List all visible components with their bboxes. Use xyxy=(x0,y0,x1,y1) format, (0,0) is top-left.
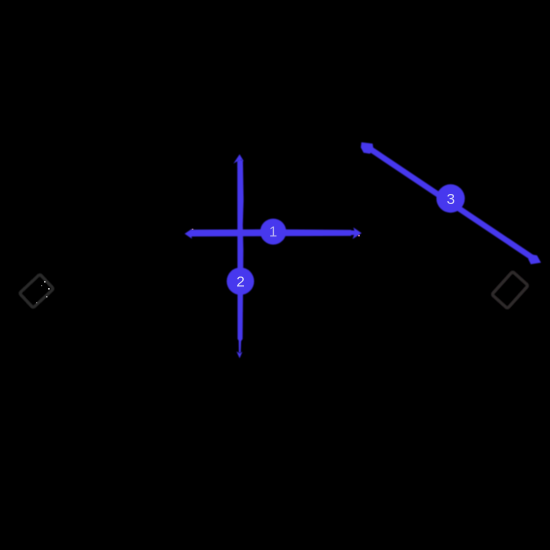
right object (rotated dark rectangle outline) xyxy=(492,271,528,308)
vertical arrow bottom small head xyxy=(237,351,243,358)
diagonal arrow shaft xyxy=(367,147,536,260)
vertical arrow top head xyxy=(233,154,243,166)
marker circle 1 xyxy=(260,219,286,245)
pink artifact dot right xyxy=(358,235,360,237)
svg-text:1: 1 xyxy=(269,225,277,241)
marker circle 2 xyxy=(227,268,254,295)
vertical arrow bottom thin tail xyxy=(239,341,241,353)
horizontal arrow left head xyxy=(185,229,197,239)
horizontal arrow shaft xyxy=(191,229,351,236)
diagonal arrow bottom-right head xyxy=(528,254,541,264)
diagonal arrow top-left head xyxy=(361,142,374,154)
vertical arrow shaft xyxy=(237,160,243,343)
horizontal arrow right head xyxy=(349,227,362,239)
left object speckles xyxy=(36,281,50,303)
svg-text:2: 2 xyxy=(236,274,244,291)
pink artifact dot left xyxy=(192,229,194,230)
marker circle 3 xyxy=(436,184,464,212)
left object (rotated dark rectangle outline) xyxy=(19,274,53,308)
svg-text:3: 3 xyxy=(447,191,455,208)
